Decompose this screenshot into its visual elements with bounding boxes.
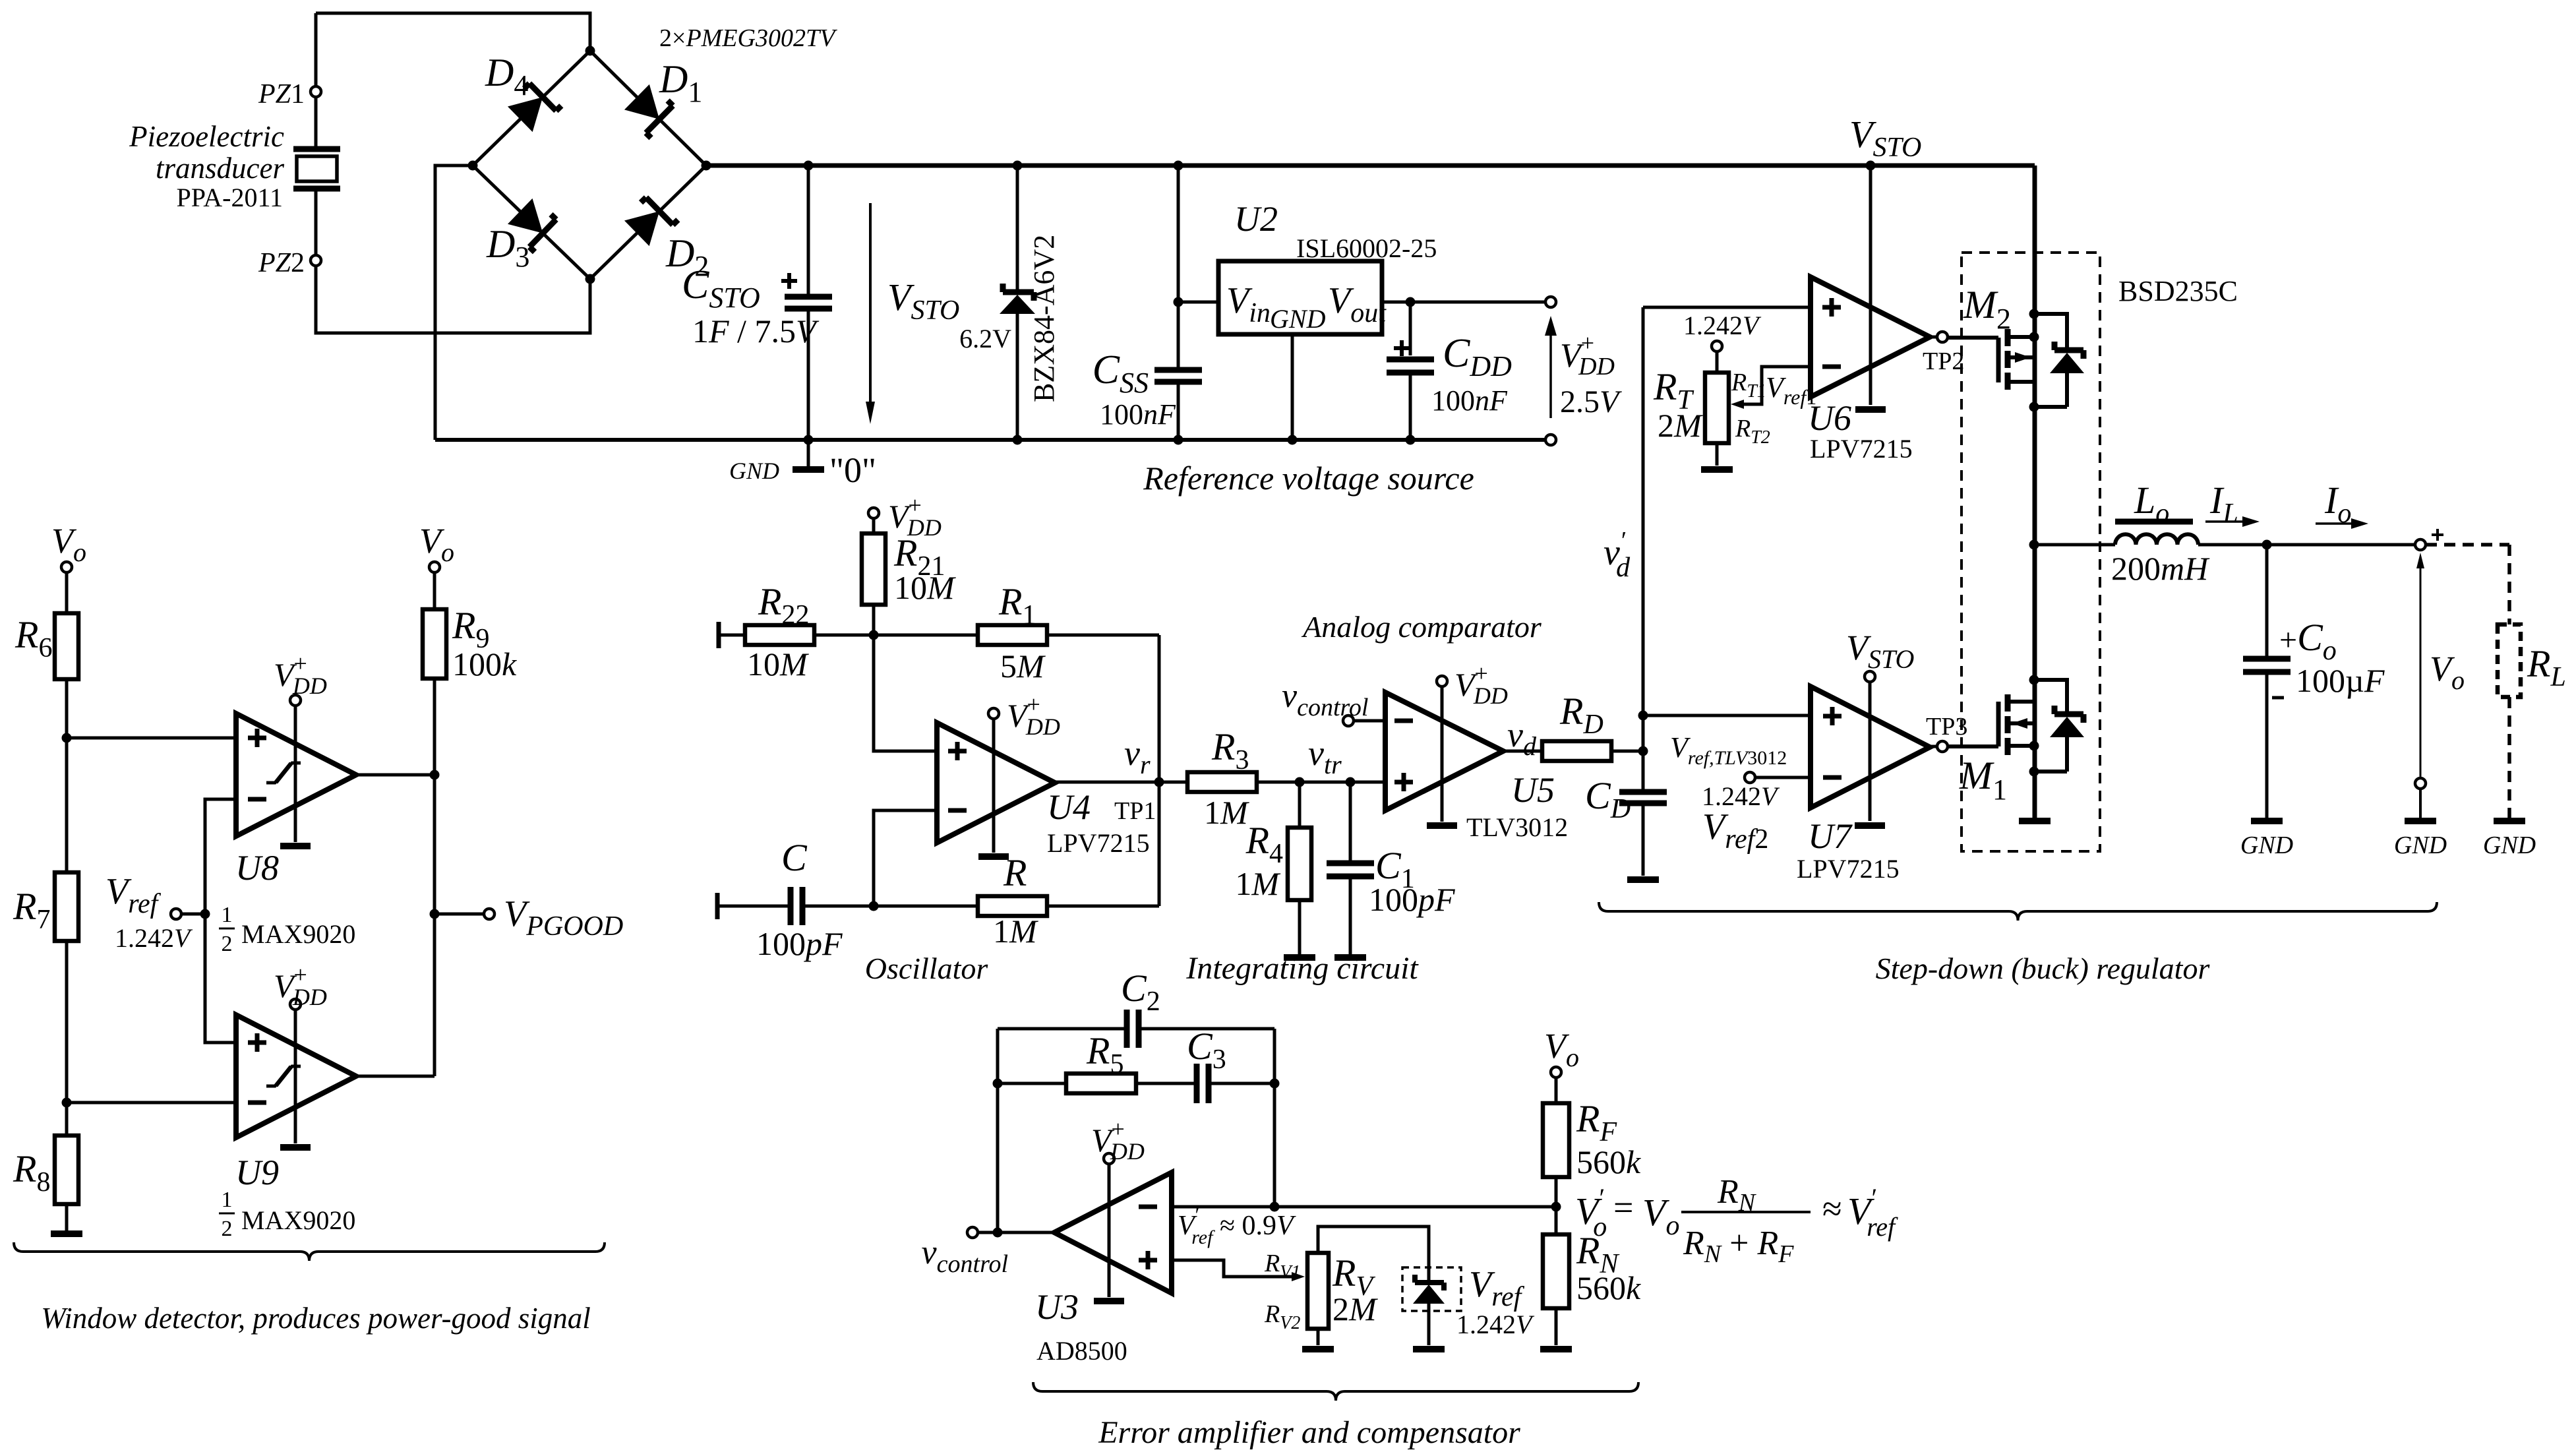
node R7-R8 junction	[62, 1098, 72, 1108]
node M2 diode bottom	[2029, 402, 2039, 412]
svg-text:Vref,TLV3012: Vref,TLV3012	[1670, 731, 1787, 769]
ground Vref	[1413, 1346, 1445, 1352]
wire inductor to output	[2198, 543, 2415, 547]
svg-text:MAX9020: MAX9020	[241, 1205, 355, 1235]
svg-text:1M: 1M	[1204, 794, 1249, 831]
brace window detector	[14, 1242, 605, 1261]
load resistor RL dashed	[2426, 545, 2509, 624]
node VPGOOD tap	[430, 909, 440, 919]
svg-text:V+DD: V+DD	[1091, 1116, 1145, 1165]
wire U2 Vout	[1382, 301, 1545, 304]
node M1 diode bottom	[2029, 767, 2039, 777]
capacitor CDD 100nF	[1409, 302, 1412, 355]
svg-text:Integrating circuit: Integrating circuit	[1185, 951, 1419, 986]
wire U8 supply	[294, 706, 297, 842]
ground RT	[1701, 466, 1733, 473]
svg-text:V+DD: V+DD	[1560, 330, 1615, 380]
svg-text:BSD235C: BSD235C	[2118, 275, 2238, 307]
capacitor C3	[1197, 1064, 1209, 1103]
node C junction	[869, 901, 879, 911]
bridge rectifier diamond	[473, 51, 706, 279]
node bridge bottom	[585, 274, 595, 284]
capacitor CSTO 1F/7.5V	[807, 166, 810, 294]
wire U9 output	[356, 1075, 434, 1078]
ground U8	[280, 843, 311, 849]
test point TP3 output	[1930, 745, 1937, 748]
svg-text:C2: C2	[1121, 967, 1160, 1017]
wire piezo bottom to bridge bottom vertex	[316, 266, 590, 333]
capacitor CSS 100nF	[1177, 166, 1180, 367]
svg-text:V′ref ≈ 0.9V: V′ref ≈ 0.9V	[1178, 1204, 1296, 1248]
resistor R1 5M	[978, 625, 1047, 645]
op-amp U4 LPV7215	[937, 723, 1055, 843]
op-amp U8 MAX9020	[236, 713, 356, 836]
node vd-prime U7 tap	[1638, 711, 1648, 721]
svg-text:1.242V: 1.242V	[1456, 1310, 1535, 1339]
svg-text:R22: R22	[758, 580, 809, 630]
ground RN	[1540, 1346, 1572, 1352]
svg-text:LPV7215: LPV7215	[1810, 434, 1913, 464]
node vr	[1154, 777, 1164, 787]
ground output	[2405, 818, 2436, 824]
node bridge right	[702, 161, 711, 171]
node vcontrol feedback tap	[993, 1228, 1003, 1238]
transistor M2	[1996, 338, 2001, 382]
node Co top	[2262, 540, 2272, 550]
op-amp U3 AD8500	[1054, 1172, 1172, 1293]
svg-text:ISL60002-25: ISL60002-25	[1296, 233, 1437, 263]
ground U5	[1427, 822, 1457, 829]
svg-text:CD: CD	[1585, 774, 1631, 824]
node U3 minus tap	[1270, 1202, 1280, 1212]
svg-text:U2: U2	[1234, 199, 1278, 239]
svg-text:6.2V: 6.2V	[959, 324, 1011, 353]
terminal VDD+ U4 supply	[988, 708, 999, 719]
resistor RD	[1542, 741, 1611, 761]
svg-text:560k: 560k	[1576, 1269, 1641, 1306]
terminal PZ2	[311, 255, 321, 266]
svg-text:Vo: Vo	[1544, 1026, 1579, 1072]
wire U8 minus to Vref node	[205, 799, 236, 1043]
svg-text:R8: R8	[13, 1147, 50, 1198]
svg-text:V+DD: V+DD	[274, 961, 327, 1010]
wire U9 minus input	[67, 1101, 236, 1105]
op-amp U7 LPV7215	[1811, 686, 1930, 808]
svg-text:"0": "0"	[829, 450, 876, 490]
ground U6	[1855, 406, 1886, 413]
node Vref junction	[200, 909, 210, 919]
diode D1	[624, 83, 678, 138]
ground C1	[1334, 954, 1366, 961]
svg-text:TLV3012: TLV3012	[1466, 812, 1568, 842]
terminal Vref2 1.242V	[1745, 772, 1755, 783]
resistor R21 10M	[872, 518, 876, 533]
resistor R7	[55, 872, 78, 941]
node vtr	[1295, 777, 1305, 787]
wire U3 plus to RV wiper	[1172, 1260, 1292, 1277]
wire M2 drain-source line	[2033, 166, 2037, 545]
svg-text:1: 1	[222, 903, 233, 927]
svg-text:vr: vr	[1124, 733, 1151, 779]
wire U8 plus input	[67, 737, 236, 740]
wire TP3 to M1 gate	[1948, 744, 1998, 748]
wire U4 plus input	[874, 635, 937, 751]
terminal VDD+ output	[1545, 297, 1556, 307]
svg-text:R3: R3	[1211, 725, 1249, 775]
svg-text:10M: 10M	[894, 569, 956, 606]
svg-text:V+DD: V+DD	[1007, 691, 1060, 740]
svg-text:100pF: 100pF	[1369, 881, 1455, 918]
svg-text:Step-down (buck) regulator: Step-down (buck) regulator	[1876, 952, 2211, 985]
wire M1 drain-source line	[2033, 545, 2037, 818]
node CSS Vin tap	[1174, 297, 1183, 307]
wire U8 output	[356, 773, 434, 777]
svg-text:Vref2: Vref2	[1702, 806, 1768, 855]
node CSTO top	[804, 161, 814, 171]
resistor R6	[65, 572, 69, 613]
svg-text:V+DD: V+DD	[1454, 660, 1508, 709]
svg-text:2×PMEG3002TV: 2×PMEG3002TV	[659, 24, 837, 52]
arrow VSTO voltage	[869, 203, 872, 404]
svg-text:GND: GND	[1270, 304, 1326, 334]
svg-text:U4: U4	[1047, 787, 1091, 827]
svg-text:5M: 5M	[1000, 648, 1046, 684]
svg-text:Analog comparator: Analog comparator	[1301, 610, 1542, 644]
svg-text:D3: D3	[486, 222, 529, 273]
svg-text:AD8500: AD8500	[1036, 1336, 1127, 1366]
node R5 right	[1270, 1079, 1280, 1089]
svg-text:VSTO: VSTO	[1849, 113, 1921, 163]
svg-text:100k: 100k	[452, 646, 517, 682]
svg-text:vcontrol: vcontrol	[1282, 677, 1368, 721]
node CDD top	[1406, 297, 1416, 307]
wire U9 supply	[294, 1010, 297, 1143]
op-amp U5 TLV3012	[1385, 692, 1503, 810]
svg-text:C3: C3	[1187, 1025, 1226, 1075]
svg-text:Lo: Lo	[2134, 479, 2169, 529]
svg-text:RL: RL	[2527, 642, 2566, 692]
resistor RF 560k	[1555, 1077, 1558, 1103]
svg-text:VSTO: VSTO	[887, 276, 959, 326]
wire vd-prime node vertical	[1642, 307, 1645, 789]
svg-text:GND: GND	[2394, 832, 2447, 859]
svg-text:transducer: transducer	[156, 152, 284, 185]
terminal vcontrol input	[1343, 715, 1354, 726]
wire RV bottom	[1317, 1329, 1320, 1345]
resistor R22 10M	[717, 622, 721, 648]
wire U3 output	[978, 1231, 1054, 1234]
svg-text:2M: 2M	[1333, 1290, 1378, 1327]
arrow Vo measurement	[2420, 566, 2422, 778]
potentiometer RT 2M	[1716, 351, 1719, 373]
svg-text:Window detector, produces powe: Window detector, produces power-good sig…	[41, 1302, 591, 1335]
svg-text:Oscillator: Oscillator	[865, 952, 989, 985]
svg-text:2: 2	[222, 932, 233, 956]
svg-text:1M: 1M	[993, 913, 1038, 950]
terminal VDD+ oscillator supply	[868, 508, 879, 518]
svg-text:2M: 2M	[1658, 407, 1703, 444]
wire vd output	[1503, 750, 1542, 753]
node zener top	[1013, 161, 1023, 171]
svg-text:vtr: vtr	[1308, 733, 1342, 779]
wire R1 to vr node	[1158, 635, 1161, 906]
terminal 1.242V RT top	[1712, 341, 1722, 351]
svg-text:PPA-2011: PPA-2011	[176, 183, 283, 212]
regulator U2 ISL60002-25	[1178, 301, 1218, 304]
op-amp U6 LPV7215	[1811, 277, 1930, 397]
ground R4	[1284, 954, 1315, 961]
test point TP2 output	[1930, 336, 1937, 339]
svg-text:RN + RF: RN + RF	[1683, 1225, 1794, 1268]
svg-text:TP2: TP2	[1923, 348, 1964, 375]
terminal Vo error amp	[1551, 1067, 1561, 1077]
node C1 tap	[1346, 777, 1356, 787]
wire left divider lower	[65, 941, 69, 1136]
node CDD bottom	[1406, 435, 1416, 445]
svg-text:V+DD: V+DD	[274, 650, 327, 699]
svg-text:R: R	[1003, 851, 1027, 894]
svg-text:C: C	[781, 836, 808, 879]
svg-text:U3: U3	[1035, 1287, 1079, 1327]
svg-text:100µF: 100µF	[2296, 662, 2385, 699]
svg-text:GND: GND	[729, 458, 779, 484]
node U2 gnd	[1288, 435, 1298, 445]
svg-text:10M: 10M	[747, 646, 809, 682]
brace error amplifier	[1033, 1382, 1638, 1401]
svg-text:U9: U9	[235, 1153, 279, 1192]
svg-text:200mH: 200mH	[2111, 550, 2210, 587]
svg-text:LPV7215: LPV7215	[1047, 828, 1150, 858]
svg-text:TP1: TP1	[1114, 797, 1156, 825]
svg-text:PZ1: PZ1	[258, 79, 305, 109]
svg-text:R6: R6	[15, 613, 52, 663]
svg-text:U7: U7	[1808, 816, 1853, 856]
node CSS bottom	[1174, 435, 1183, 445]
ground CD	[1627, 876, 1659, 883]
svg-text:vcontrol: vcontrol	[922, 1234, 1008, 1278]
svg-text:1: 1	[222, 1188, 233, 1212]
terminal VSTO U7 supply	[1865, 671, 1875, 682]
terminal output ground side	[2415, 778, 2426, 789]
node switch SW	[2029, 540, 2039, 550]
terminal VDD+ U5 supply	[1437, 676, 1447, 686]
svg-text:Error amplifier and compensato: Error amplifier and compensator	[1098, 1415, 1520, 1450]
resistor R8	[55, 1136, 78, 1204]
svg-text:Vref: Vref	[1469, 1264, 1525, 1312]
resistor R 1M feedback	[978, 896, 1047, 916]
svg-text:Io: Io	[2324, 479, 2351, 529]
arrow VDD 2.5V	[1549, 333, 1552, 418]
svg-text:RF: RF	[1576, 1097, 1617, 1147]
shunt reference Vref 1.242V dashed box	[1402, 1267, 1461, 1311]
ground U4	[978, 853, 1009, 860]
terminal Vref 1.242V	[171, 909, 181, 919]
node vd-prime RD tap	[1638, 746, 1648, 756]
svg-text:R5: R5	[1086, 1029, 1123, 1079]
svg-text:1F / 7.5V: 1F / 7.5V	[692, 313, 820, 349]
svg-text:M2: M2	[1963, 283, 2011, 335]
svg-text:Vref: Vref	[105, 871, 162, 919]
svg-text:560k: 560k	[1576, 1143, 1641, 1180]
transistor M1	[1996, 702, 2001, 746]
capacitor Co 100uF	[2265, 545, 2269, 656]
svg-text:V′ref: V′ref	[1847, 1183, 1898, 1242]
resistor R5	[998, 1082, 1066, 1085]
svg-text:LPV7215: LPV7215	[1797, 854, 1900, 884]
resistor RN 560k	[1543, 1234, 1569, 1308]
capacitor C1 100pF	[1349, 782, 1352, 861]
wire bridge left vertex to ground rail	[435, 166, 473, 440]
wire R9 output column	[433, 679, 436, 1076]
svg-text:VPGOOD: VPGOOD	[504, 894, 623, 942]
wire U6 minus input from RT wiper	[1743, 367, 1811, 404]
wire piezo top to bridge top vertex	[316, 13, 590, 46]
wire ground rail	[435, 438, 1545, 442]
svg-text:=: =	[1613, 1188, 1633, 1227]
svg-text:M1: M1	[1959, 754, 2007, 806]
wire U3 supply	[1108, 1164, 1111, 1297]
ground U3	[1094, 1298, 1124, 1304]
node bridge top	[585, 46, 595, 56]
terminal VDD+ return	[1545, 435, 1556, 445]
svg-text:v′d: v′d	[1603, 527, 1631, 583]
svg-text:CSTO: CSTO	[682, 262, 760, 314]
svg-text:Piezoelectric: Piezoelectric	[129, 120, 284, 153]
diode D3	[507, 197, 562, 252]
svg-text:RN: RN	[1717, 1173, 1757, 1217]
wire vr output	[1055, 781, 1187, 784]
ground U7	[1855, 822, 1885, 829]
node bridge left	[468, 161, 478, 171]
potentiometer RV 2M	[1307, 1253, 1329, 1329]
terminal Vo right	[429, 562, 440, 572]
svg-text:D4: D4	[485, 51, 528, 102]
node R21 bottom	[869, 630, 879, 640]
svg-text:TP3: TP3	[1926, 713, 1967, 741]
svg-text:vd: vd	[1507, 715, 1537, 761]
wire U6 supply from VSTO rail	[1869, 166, 1872, 405]
wire U2 GND pin	[1291, 334, 1294, 440]
wire U7 plus input	[1643, 714, 1811, 717]
terminal Vo left	[61, 562, 72, 572]
resistor R4 1M	[1298, 782, 1302, 828]
piezoelectric transducer PPA-2011	[315, 13, 318, 86]
wire feedback left branch	[996, 1029, 1000, 1232]
terminal VDD+ U8 supply	[290, 695, 301, 706]
wire left divider upper	[65, 679, 69, 872]
diode D4	[507, 78, 562, 133]
brace step-down buck regulator	[1599, 902, 2437, 921]
capacitor C 100pF	[715, 893, 720, 919]
node R5 left	[993, 1079, 1003, 1089]
op-amp U9 MAX9020	[236, 1015, 356, 1137]
svg-text:Vo: Vo	[51, 521, 86, 567]
svg-text:R4: R4	[1245, 819, 1283, 869]
svg-text:≈: ≈	[1822, 1189, 1842, 1228]
svg-text:100nF: 100nF	[1431, 384, 1508, 417]
svg-text:U5: U5	[1511, 770, 1555, 810]
node CSTO bottom	[804, 435, 814, 445]
zener diode Vref	[1415, 1275, 1444, 1290]
svg-text:100pF: 100pF	[756, 925, 843, 962]
ground M1 source	[2019, 818, 2051, 824]
ground RL	[2494, 818, 2525, 824]
body diode of M2	[2034, 314, 2067, 349]
inductor Lo 200mH	[2115, 534, 2198, 545]
node M1 diode top	[2029, 675, 2039, 685]
zener diode BZX84-A6V2 6.2V	[1016, 166, 1019, 292]
svg-text:CSS: CSS	[1093, 348, 1149, 399]
resistor R3 1M	[1187, 772, 1257, 792]
node zener bottom	[1013, 435, 1023, 445]
svg-text:Reference voltage source: Reference voltage source	[1143, 460, 1474, 497]
node M1 source row	[2029, 741, 2039, 751]
svg-text:RD: RD	[1559, 690, 1603, 740]
wire U3 minus input	[1172, 1205, 1556, 1209]
capacitor C2	[1127, 1010, 1139, 1048]
ground R8	[65, 1204, 69, 1230]
terminal PZ1	[311, 86, 321, 97]
node M2 diode top	[2029, 309, 2039, 319]
terminal VDD+ U9 supply	[290, 999, 301, 1010]
svg-text:CDD: CDD	[1443, 331, 1512, 382]
svg-text:PZ2: PZ2	[258, 248, 305, 278]
svg-text:2: 2	[222, 1217, 233, 1241]
svg-text:U8: U8	[235, 848, 279, 888]
svg-text:R1: R1	[998, 580, 1036, 630]
node R6-R7 junction	[62, 733, 72, 743]
wire U5 supply	[1441, 686, 1444, 822]
ground GND 0 node	[807, 440, 810, 466]
wire C2 top branch	[998, 1027, 1124, 1031]
wire RV top to Vref diode	[1318, 1227, 1429, 1280]
svg-text:Vo: Vo	[1642, 1191, 1679, 1241]
diode D2	[624, 193, 678, 247]
wire U4 minus input	[874, 810, 937, 906]
svg-text:RT2: RT2	[1735, 415, 1770, 448]
terminal VDD+ U3 supply	[1104, 1153, 1114, 1164]
svg-text:2.5V: 2.5V	[1560, 384, 1622, 419]
wire feedback right branch	[1273, 1029, 1276, 1207]
terminal VPGOOD	[434, 913, 484, 916]
svg-text:1.242V: 1.242V	[115, 923, 193, 953]
capacitor CD	[1619, 792, 1667, 803]
ground RV	[1302, 1346, 1334, 1352]
wire U6 plus input from vd node	[1643, 306, 1811, 309]
node CSS top	[1174, 161, 1183, 171]
package BSD235C dashed box	[1962, 253, 2100, 851]
terminal vcontrol output	[967, 1227, 978, 1238]
node U8 output	[430, 770, 440, 780]
svg-text:1.242V: 1.242V	[1683, 311, 1762, 340]
svg-text:R7: R7	[13, 885, 50, 935]
ground U9	[280, 1144, 311, 1151]
svg-text:Vo: Vo	[2430, 649, 2465, 695]
ground Co	[2251, 818, 2283, 824]
wire switch node to inductor	[2035, 543, 2115, 547]
node VSTO rail junction	[1866, 161, 1876, 171]
svg-text:GND: GND	[2240, 832, 2293, 859]
svg-text:VSTO: VSTO	[1846, 628, 1914, 674]
svg-text:Vo: Vo	[419, 521, 454, 567]
svg-text:RV2: RV2	[1264, 1300, 1300, 1333]
svg-text:MAX9020: MAX9020	[241, 919, 355, 949]
svg-text:BZX84-A6V2: BZX84-A6V2	[1028, 235, 1060, 402]
body diode of M1	[2034, 680, 2067, 713]
terminal output Vo+	[2415, 539, 2426, 550]
wire VSTO top rail	[706, 164, 2035, 168]
svg-text:GND: GND	[2483, 832, 2536, 859]
